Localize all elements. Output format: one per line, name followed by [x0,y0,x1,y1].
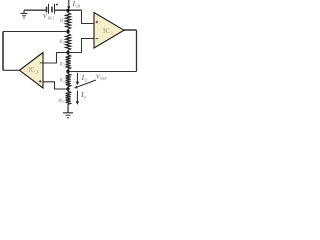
current arrow I0 lower [76,91,79,105]
battery VREF [47,4,55,14]
wire node B to left loop [3,31,68,33]
IC2 plus sign [39,80,42,83]
arrow VREF to node E [74,80,96,88]
resistor R4 [66,72,71,90]
IC2 minus sign [40,62,43,64]
IC1 minus sign [96,38,99,40]
right loop vertical wire [136,30,138,72]
node E [66,87,69,90]
wire node A step to IC1 plus input [82,10,95,23]
svg-text:2R: 2R [76,4,81,9]
battery plus sign [56,4,58,6]
current arrow I0 upper [76,73,79,85]
resistor R2 [66,32,71,53]
op-amp IC2 [20,53,44,89]
node C [66,51,69,54]
svg-text:1: 1 [63,20,65,24]
wire IC1 output [124,29,137,31]
wire battery to node A [55,9,82,11]
node B [66,30,69,33]
svg-text:0: 0 [85,78,87,83]
svg-text:5: 5 [62,100,64,104]
IC1 plus sign [96,21,99,24]
node D [66,70,69,73]
svg-text:4: 4 [63,80,65,84]
svg-text:0: 0 [84,95,86,100]
wire node C step to IC2 minus input [43,53,68,64]
resistor R3 [66,53,71,72]
wire ground to battery [24,9,46,11]
svg-text:REF: REF [100,77,107,81]
wire node D to right loop [68,71,137,73]
ground bottom [63,113,73,118]
svg-text:2: 2 [63,41,65,45]
current arrow I2R [67,0,70,10]
ground top-left [21,10,28,18]
svg-text:3: 3 [63,64,65,68]
wire node C step to IC1 minus input [68,39,94,53]
resistor R5 [66,89,71,112]
wire node E step to IC2 plus input [43,82,68,89]
svg-text:IC: IC [28,66,35,74]
node A [66,9,69,12]
left loop vertical wire [2,32,4,71]
svg-text:IC: IC [103,27,110,35]
svg-text:REF: REF [48,16,55,20]
op-amp IC1 [94,13,124,49]
wire to IC2 output [3,69,20,71]
resistor R1 [66,10,71,31]
